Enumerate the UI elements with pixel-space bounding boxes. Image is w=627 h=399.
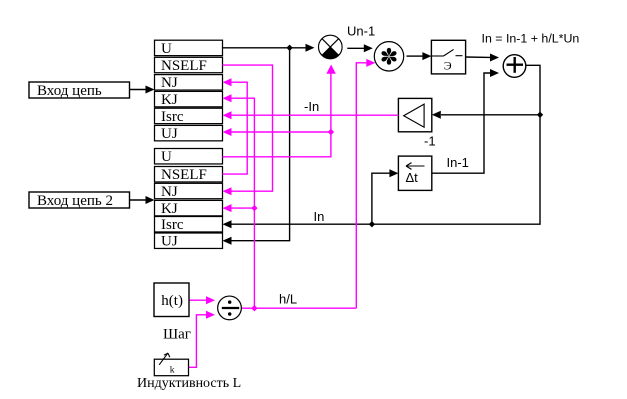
node junction h/L to KJ(B2): [251, 205, 257, 211]
wire h/L up to KJ(B1): [223, 94, 255, 308]
svg-text:UJ: UJ: [161, 234, 178, 250]
comparator circle X: [319, 35, 343, 59]
svg-text:h/L: h/L: [279, 292, 297, 307]
wire multiplier to switch: [407, 52, 432, 60]
block B2 row UJ: [155, 233, 223, 250]
multiplier circle: [374, 42, 403, 71]
wire branch to UJ(B1): [223, 128, 331, 136]
wire branch to KJ(B2): [223, 204, 255, 212]
svg-text:Isrc: Isrc: [161, 109, 184, 125]
divider h/L output wire: [242, 307, 357, 309]
inverter block -1: [398, 98, 431, 131]
wire Вход цепь to B1: [130, 86, 155, 94]
node junction In to delay: [369, 221, 375, 227]
block B2 row Isrc: [155, 217, 223, 234]
block B1 row NSELF: [155, 57, 223, 74]
svg-text:Un-1: Un-1: [347, 24, 375, 39]
svg-text:U: U: [161, 149, 172, 165]
wire U(B1) to comparator: [223, 44, 315, 52]
svg-text:Вход цепь: Вход цепь: [37, 83, 102, 99]
wire h/L up to multiplier: [356, 59, 375, 308]
coefficient block k: [154, 353, 188, 376]
wire U(B1) down to UJ(B2): [223, 48, 290, 245]
svg-text:k: k: [170, 365, 175, 375]
svg-text:Вход цепь 2: Вход цепь 2: [37, 193, 113, 209]
wire inverter output -In to Isrc(B1): [223, 111, 399, 119]
svg-text:KJ: KJ: [161, 92, 178, 108]
svg-text:UJ: UJ: [161, 126, 178, 142]
block B2 row NJ: [155, 183, 223, 200]
svg-text:Индуктивность L: Индуктивность L: [137, 376, 241, 391]
svg-text:-In: -In: [304, 99, 319, 114]
node junction h/L: [251, 305, 257, 311]
svg-text:NSELF: NSELF: [161, 58, 207, 74]
wire Вход цепь 2 to B2: [130, 196, 155, 204]
wire h(t) to divider: [189, 296, 215, 304]
wire In up to delay: [372, 169, 399, 224]
block B1 row Isrc: [155, 108, 223, 125]
node junction U(B2) to UJ(B1): [328, 129, 334, 135]
block B1 row U: [155, 40, 223, 57]
block B1 row NJ: [155, 75, 223, 92]
adder circle plus: [503, 55, 526, 78]
svg-text:Δt: Δt: [406, 170, 419, 185]
wire NSELF(B1) to NJ(B2): [223, 65, 273, 195]
svg-text:NJ: NJ: [161, 75, 178, 91]
block B1 row UJ: [155, 125, 223, 142]
input label box Вход цепь: [29, 82, 130, 99]
input label box Вход цепь 2: [29, 192, 130, 209]
block B2 row NSELF: [155, 167, 223, 184]
svg-text:In: In: [314, 209, 325, 224]
wire switch to adder: [466, 54, 499, 62]
wire NSELF(B2) to NJ(B1): [223, 78, 248, 174]
block B2 row KJ: [155, 200, 223, 217]
wire delay to adder: [432, 69, 499, 173]
svg-text:Isrc: Isrc: [161, 217, 184, 233]
svg-text:U: U: [161, 41, 172, 57]
node junction at U out: [286, 45, 292, 51]
svg-text:NJ: NJ: [161, 184, 178, 200]
svg-text:KJ: KJ: [161, 201, 178, 217]
wire feedback to inverter: [432, 111, 540, 119]
svg-text:-1: -1: [424, 134, 436, 149]
block B1 row KJ: [155, 91, 223, 108]
wire adder output feedback: [223, 65, 541, 228]
delay block dt: [398, 156, 431, 190]
node junction feedback to inverter: [537, 112, 543, 118]
svg-text:In = In-1 + h/L*Un: In = In-1 + h/L*Un: [482, 32, 580, 46]
wire comparator to multiplier: [347, 44, 373, 52]
svg-text:h(t): h(t): [161, 293, 183, 309]
switch block Э: [431, 40, 465, 74]
divider circle: [218, 296, 242, 320]
wire U(B2) up to comparator: [223, 65, 336, 157]
svg-text:In-1: In-1: [447, 155, 469, 170]
wire k to divider: [189, 311, 216, 368]
svg-text:Шаг: Шаг: [163, 327, 191, 343]
step block h(t): [154, 283, 189, 317]
svg-text:NSELF: NSELF: [161, 167, 207, 183]
svg-text:Э: Э: [444, 58, 452, 72]
block B2 row U: [155, 149, 223, 166]
